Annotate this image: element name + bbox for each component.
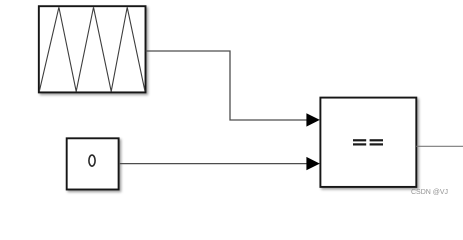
constant block value label 0 (drawn as ring) [89, 155, 95, 166]
relational operator label == (drawn as bars) [353, 139, 383, 145]
constant block body [67, 138, 119, 189]
wire from source block to relational operator input 1 [146, 51, 307, 120]
arrowhead at relational operator input 1 [306, 113, 319, 126]
triangle waveform icon inside source block [39, 7, 145, 91]
svg-text:CSDN @VJ: CSDN @VJ [411, 189, 448, 196]
wire from constant block to relational operator input 2 [119, 163, 307, 165]
repeating sequence block (triangle-wave source) body [39, 6, 146, 92]
arrowhead at relational operator input 2 [306, 157, 319, 170]
relational operator block body [320, 98, 416, 187]
output wire from relational operator to right edge [416, 145, 463, 147]
